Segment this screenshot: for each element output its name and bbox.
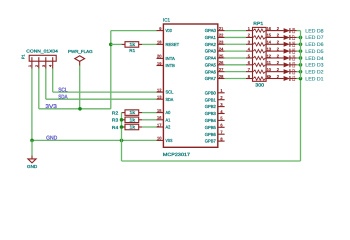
svg-text:RESET: RESET	[166, 42, 180, 47]
junction R4 / riser	[120, 125, 124, 129]
wire to GND symbol	[31, 140, 33, 155]
svg-text:12: 12	[267, 53, 272, 58]
svg-text:24: 24	[219, 46, 224, 51]
svg-text:15: 15	[157, 108, 162, 113]
svg-text:D6: D6	[292, 41, 296, 47]
wire LED D8 cathode	[297, 30, 301, 32]
svg-text:D7: D7	[292, 35, 296, 41]
svg-text:1k: 1k	[129, 117, 136, 122]
RP1 element 7, pins 7/10	[246, 67, 273, 73]
svg-text:GPB0: GPB0	[205, 90, 217, 95]
svg-text:RP1: RP1	[253, 21, 263, 26]
pin 24 GPA3	[205, 46, 225, 53]
svg-text:INTB: INTB	[166, 63, 175, 68]
svg-text:22: 22	[219, 33, 224, 38]
svg-text:R1: R1	[129, 48, 135, 53]
RP1 element 6, pins 6/11	[246, 60, 273, 66]
svg-text:GPB4: GPB4	[205, 118, 217, 123]
junction P1 pin1 / GND rail	[30, 139, 34, 143]
svg-text:GPA2: GPA2	[205, 42, 217, 47]
svg-text:GPA6: GPA6	[205, 69, 217, 74]
pin 6 GPB5	[205, 123, 225, 130]
LED D4	[273, 53, 297, 61]
pin 17 A2	[157, 122, 171, 129]
LED D7	[273, 33, 297, 41]
svg-text:R2: R2	[112, 110, 119, 115]
svg-text:10: 10	[267, 67, 272, 72]
svg-text:VSS: VSS	[166, 138, 173, 143]
pin 5 GPB4	[205, 116, 225, 123]
svg-text:D4: D4	[292, 55, 296, 61]
wire R2 to A0	[142, 112, 156, 114]
wire GPA1 to RP1	[225, 36, 246, 38]
svg-text:3: 3	[42, 65, 46, 67]
wire P1 pin4 down	[52, 69, 54, 93]
LED D5	[273, 46, 297, 54]
svg-text:GPB5: GPB5	[205, 125, 217, 130]
power flag PWR_FLAG	[68, 49, 93, 66]
wire 3V3 rail	[39, 108, 111, 110]
resistor R2 1k	[112, 110, 142, 116]
svg-text:GPB2: GPB2	[205, 104, 217, 109]
wire GPA7 to RP1	[225, 78, 246, 80]
wire P1 pin1 to GND rail	[31, 69, 33, 141]
LED D8	[273, 26, 297, 34]
svg-text:17: 17	[157, 122, 162, 127]
svg-text:GPB1: GPB1	[205, 97, 217, 102]
svg-text:28: 28	[219, 74, 224, 79]
svg-text:PWR_FLAG: PWR_FLAG	[68, 49, 93, 54]
connector P1 CONN_01X04	[21, 49, 59, 69]
LED D6	[273, 40, 297, 48]
svg-text:18: 18	[157, 40, 162, 45]
wire GND rail to VSS	[32, 139, 157, 141]
wire LED cathode bus upper	[300, 31, 302, 79]
wire LED cathode bus lower	[300, 79, 302, 162]
wire PWR_FLAG to 3V3 rail	[79, 66, 81, 109]
svg-text:16: 16	[157, 115, 162, 120]
wire R1 to RESET	[142, 43, 156, 45]
svg-text:GPA5: GPA5	[205, 62, 217, 67]
pin 16 A1	[157, 115, 171, 122]
svg-text:D5: D5	[292, 48, 296, 54]
svg-text:GND: GND	[46, 136, 57, 142]
RP1 element 1, pins 1/16	[246, 26, 273, 32]
svg-text:1: 1	[28, 65, 32, 67]
svg-text:D3: D3	[292, 62, 296, 68]
pin 10 VSS	[157, 136, 173, 143]
pin 28 GPA7	[205, 74, 225, 81]
IC IC1 MCP23017 body	[163, 24, 217, 147]
pin 15 A0	[157, 108, 171, 115]
svg-text:10: 10	[157, 136, 162, 141]
svg-text:IC1: IC1	[163, 18, 170, 23]
wire LED D5 cathode	[297, 50, 301, 52]
pin 3 GPB2	[205, 102, 225, 109]
svg-text:LED D5: LED D5	[305, 49, 324, 55]
svg-text:GPB7: GPB7	[205, 139, 217, 144]
svg-text:27: 27	[219, 67, 224, 72]
RP1 element 8, pins 8/9	[246, 74, 273, 80]
svg-text:26: 26	[219, 60, 224, 65]
svg-text:LED D2: LED D2	[305, 69, 324, 75]
svg-text:300: 300	[255, 83, 264, 88]
svg-text:25: 25	[219, 53, 224, 58]
svg-text:R3: R3	[112, 118, 119, 123]
wire LED D1 cathode	[297, 78, 301, 80]
wire GPA0 to RP1	[225, 30, 246, 32]
wire GPA2 to RP1	[225, 43, 246, 45]
pin 1 GPB0	[205, 88, 225, 95]
pin 20 INTA	[157, 54, 175, 61]
junction cathode bus D5	[299, 49, 303, 53]
LED D1	[273, 74, 297, 82]
RP1 element 4, pins 4/13	[246, 46, 273, 52]
svg-text:GND: GND	[27, 164, 37, 169]
pin 25 GPA4	[205, 53, 225, 60]
svg-text:LED D1: LED D1	[305, 76, 324, 82]
svg-text:SDA: SDA	[166, 97, 174, 102]
RP1 element 3, pins 3/14	[246, 40, 273, 46]
svg-text:20: 20	[157, 54, 162, 59]
svg-text:3V3: 3V3	[45, 104, 57, 110]
pin 12 SCL	[157, 87, 174, 94]
svg-text:VDD: VDD	[166, 28, 172, 33]
svg-text:R4: R4	[112, 125, 119, 130]
wire GPA4 to RP1	[225, 57, 246, 59]
svg-text:LED D8: LED D8	[305, 28, 324, 34]
svg-text:1k: 1k	[129, 42, 136, 47]
svg-text:D2: D2	[292, 69, 296, 75]
junction cathode bus D7	[299, 36, 303, 40]
svg-text:1k: 1k	[129, 125, 136, 130]
pin 19 INTB	[157, 61, 175, 68]
wire LED D2 cathode	[297, 71, 301, 73]
pin 8 GPB7	[205, 136, 225, 143]
pin 27 GPA6	[205, 67, 225, 74]
svg-text:GPA1: GPA1	[205, 35, 217, 40]
resistor pack RP1 body	[253, 27, 267, 81]
RP1 element 5, pins 5/12	[246, 53, 273, 59]
pin 21 GPA0	[205, 26, 225, 33]
junction pulldown riser / GND rail	[120, 139, 124, 143]
svg-text:14: 14	[267, 40, 272, 45]
svg-text:GPB3: GPB3	[205, 111, 217, 116]
svg-text:D8: D8	[292, 28, 296, 34]
svg-text:SCL: SCL	[58, 88, 67, 94]
junction cathode bus D3	[299, 63, 303, 67]
pin 26 GPA5	[205, 60, 225, 67]
RP1 element 2, pins 2/15	[246, 33, 273, 39]
wire VDD riser to R1	[111, 43, 122, 45]
wire pulldown riser	[121, 113, 123, 161]
wire SCL	[53, 91, 157, 93]
wire SDA	[46, 98, 157, 100]
junction cathode bus D2	[299, 70, 303, 74]
wire bottom GND return	[122, 160, 301, 162]
wire GPA6 to RP1	[225, 71, 246, 73]
pin 22 GPA1	[205, 33, 225, 40]
svg-text:A1: A1	[166, 117, 171, 122]
wire 3V3 riser to VDD	[110, 31, 112, 109]
junction cathode bus D4	[299, 56, 303, 60]
svg-text:19: 19	[157, 61, 162, 66]
pin 23 GPA2	[205, 40, 225, 47]
pin 18 RESET	[157, 40, 180, 47]
svg-text:GPA7: GPA7	[205, 76, 217, 81]
svg-text:16: 16	[267, 26, 272, 31]
svg-text:23: 23	[219, 40, 224, 45]
svg-text:LED D6: LED D6	[305, 42, 324, 48]
svg-text:1k: 1k	[129, 110, 136, 115]
svg-text:13: 13	[157, 95, 162, 100]
pin 13 SDA	[157, 95, 174, 102]
svg-text:P1: P1	[21, 54, 26, 59]
svg-text:LED D7: LED D7	[305, 35, 324, 41]
pin 4 GPB3	[205, 109, 225, 116]
pin 2 GPB1	[205, 95, 225, 102]
wire P1 pin2 down	[38, 69, 40, 109]
resistor R1 1k	[122, 42, 143, 53]
svg-text:SDA: SDA	[58, 95, 68, 101]
svg-text:GPA0: GPA0	[205, 28, 217, 33]
svg-text:13: 13	[267, 46, 272, 51]
svg-text:GPB6: GPB6	[205, 132, 217, 137]
wire LED D7 cathode	[297, 36, 301, 38]
svg-text:GPA3: GPA3	[205, 49, 217, 54]
svg-text:D1: D1	[292, 76, 296, 82]
wire P1 pin3 down	[45, 69, 47, 100]
wire R3 to A1	[142, 119, 156, 121]
wire LED D4 cathode	[297, 57, 301, 59]
svg-text:SCL: SCL	[166, 90, 174, 95]
svg-text:LED D3: LED D3	[305, 63, 324, 69]
svg-text:15: 15	[267, 33, 272, 38]
wire VDD pin9	[111, 30, 157, 32]
LED D2	[273, 67, 297, 75]
pin 9 VDD	[157, 26, 172, 33]
wire GPA3 to RP1	[225, 50, 246, 52]
svg-text:INTA: INTA	[166, 56, 175, 61]
pin 7 GPB6	[205, 130, 225, 137]
junction cathode bus D6	[299, 42, 303, 46]
wire LED D3 cathode	[297, 64, 301, 66]
svg-text:A2: A2	[166, 125, 171, 130]
svg-text:12: 12	[157, 87, 162, 92]
svg-text:A0: A0	[166, 110, 171, 115]
junction cathode bus D1	[299, 77, 303, 81]
svg-text:CONN_01X04: CONN_01X04	[26, 49, 58, 54]
junction R1 / VDD riser	[109, 43, 113, 47]
ground symbol GND	[27, 156, 37, 170]
svg-text:MCP23017: MCP23017	[163, 152, 191, 157]
svg-text:GPA4: GPA4	[205, 56, 217, 61]
wire GPA5 to RP1	[225, 64, 246, 66]
wire LED D6 cathode	[297, 43, 301, 45]
svg-text:4: 4	[49, 65, 53, 67]
svg-text:21: 21	[219, 26, 224, 31]
junction R3 / riser	[120, 118, 124, 122]
svg-text:2: 2	[35, 65, 39, 67]
svg-text:LED D4: LED D4	[305, 56, 324, 62]
LED D3	[273, 60, 297, 68]
junction PWR_FLAG / 3V3	[78, 107, 82, 111]
wire R4 to A2	[142, 126, 156, 128]
resistor R3 1k	[112, 117, 142, 123]
resistor R4 1k	[112, 124, 142, 130]
